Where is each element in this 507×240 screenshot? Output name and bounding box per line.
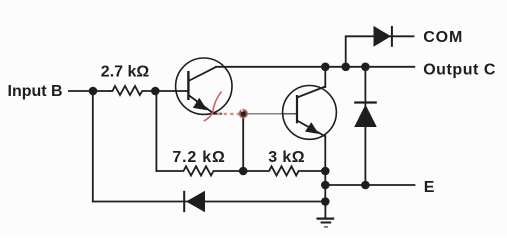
svg-text:Input B: Input B — [8, 83, 63, 100]
svg-text:2.7 kΩ: 2.7 kΩ — [101, 64, 150, 81]
svg-text:Output C: Output C — [423, 61, 496, 78]
svg-text:COM: COM — [423, 29, 463, 46]
svg-text:7.2 kΩ: 7.2 kΩ — [172, 149, 225, 166]
svg-text:E: E — [424, 179, 435, 196]
svg-text:3 kΩ: 3 kΩ — [268, 149, 305, 166]
